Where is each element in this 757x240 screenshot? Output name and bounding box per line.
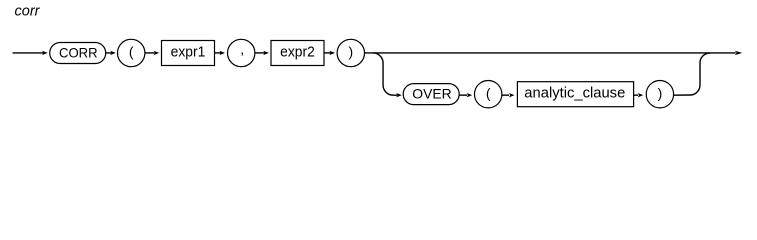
wire: comma to expr2	[255, 51, 269, 55]
title corr	[15, 3, 41, 20]
svg-text:): )	[658, 85, 663, 101]
operand box expr2	[271, 41, 324, 66]
wire: expr2 to )	[324, 51, 335, 55]
svg-text:OVER: OVER	[412, 86, 451, 102]
wire: branch down to OVER row	[373, 53, 402, 97]
svg-text:corr: corr	[15, 3, 41, 20]
svg-text:CORR: CORR	[59, 45, 98, 61]
wire: ( to analytic_clause	[502, 93, 515, 97]
wire: OVER to (	[459, 93, 472, 97]
terminal ) lower	[646, 81, 673, 108]
terminal )	[337, 39, 364, 66]
svg-text:): )	[348, 44, 353, 60]
svg-text:(: (	[129, 44, 134, 60]
wire: analytic_clause to )	[634, 93, 644, 97]
operand box expr1	[162, 41, 215, 66]
terminal OVER	[403, 84, 459, 105]
terminal ( lower	[475, 81, 502, 108]
svg-text:expr2: expr2	[280, 45, 315, 61]
wire: merge back up to main line	[674, 53, 710, 95]
wire: expr1 to comma	[215, 51, 226, 55]
terminal ,	[228, 39, 255, 66]
wire: main line to end arrow	[365, 51, 743, 55]
terminal CORR	[50, 43, 106, 64]
operand box analytic_clause	[517, 82, 633, 107]
wire: ( to expr1	[145, 51, 159, 55]
terminal (	[118, 39, 145, 66]
svg-text:,: ,	[240, 41, 244, 57]
svg-text:expr1: expr1	[171, 45, 206, 61]
wire: start line with arrowhead	[13, 51, 48, 55]
wire: CORR to (	[106, 51, 116, 55]
svg-text:(: (	[486, 85, 491, 101]
svg-text:analytic_clause: analytic_clause	[524, 86, 625, 102]
